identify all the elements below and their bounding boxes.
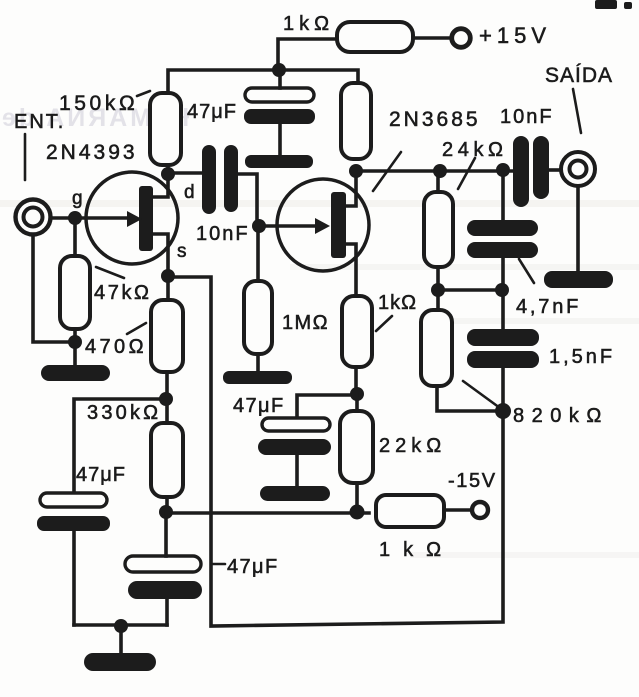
ground (under 47uF top center) (245, 155, 313, 168)
svg-text:d: d (184, 182, 195, 203)
wire output jack to ground (576, 186, 580, 273)
capacitor C 10nF output left plate (513, 136, 529, 207)
callout line 1k Q2 (376, 316, 392, 331)
capacitor C 1.5nF bottom plate (467, 351, 539, 368)
capacitor C 47uF (left) solid plate (37, 516, 110, 531)
node 47k bottom (68, 335, 82, 349)
ground (under 47k) (41, 365, 110, 381)
output jack SAIDA inner (570, 161, 587, 178)
node 1k/22k (350, 387, 364, 401)
svg-text:ENT.: ENT. (14, 111, 65, 133)
resistor R 330k (151, 423, 183, 497)
capacitor C 10nF coupling right plate (224, 145, 238, 212)
node drain Q1 (161, 167, 175, 181)
svg-text:330kΩ: 330kΩ (87, 402, 161, 424)
wire 1k-top right lead (412, 36, 453, 40)
ground (under 1M) (223, 371, 292, 384)
input jack ENT inner (24, 208, 43, 227)
wire Q1 source stub (153, 234, 168, 300)
wire +15V rail (168, 70, 358, 94)
terminal -15V (472, 502, 488, 518)
svg-text:2N4393: 2N4393 (46, 141, 138, 164)
capacitor C 47uF (left) hollow plate (40, 493, 107, 507)
resistor R 24k (424, 192, 453, 267)
callout line 470 (127, 323, 146, 334)
wire output cap to jack (549, 168, 561, 172)
svg-text:s: s (177, 241, 187, 262)
capacitor C 47uF (bottom center) solid plate (128, 581, 202, 599)
svg-text:4,7nF: 4,7nF (516, 296, 581, 318)
callout line 2N3685 (373, 152, 401, 191)
wire coupling cap to Q2 gate (238, 174, 317, 226)
transistor Q2 2N3685 body (277, 179, 369, 271)
callout line 47k (96, 267, 124, 278)
resistor R 470 (151, 300, 183, 372)
wire 22k leads (355, 394, 359, 513)
node 24k top (433, 164, 447, 178)
svg-text:22kΩ: 22kΩ (379, 435, 446, 457)
node ground bottom (114, 619, 128, 633)
svg-text:1kΩ: 1kΩ (283, 13, 334, 35)
node 820k/feedback (495, 403, 511, 419)
svg-text:47μF: 47μF (76, 464, 126, 486)
wire 1M bottom lead (256, 354, 260, 371)
wire cap bottom lead (278, 124, 282, 155)
resistor R 1k (Q2 source) (342, 296, 372, 367)
svg-text:1kΩ: 1kΩ (379, 539, 454, 561)
svg-text:10nF: 10nF (196, 223, 250, 245)
svg-text:-15V: -15V (448, 470, 497, 492)
wire 1k-top left lead (278, 39, 338, 70)
svg-text:470Ω: 470Ω (85, 336, 147, 358)
node gate Q1 (68, 211, 82, 225)
node output/4.7nF (496, 163, 510, 177)
ground (output jack) (544, 271, 613, 288)
capacitor C 47uF (top center) solid plate (244, 109, 315, 124)
wire 1.5nF bottom lead (501, 368, 505, 411)
callout line 24k (458, 158, 475, 189)
capacitor C 1.5nF top plate (467, 329, 539, 346)
input jack ENT outer (16, 200, 51, 235)
svg-text:820kΩ: 820kΩ (513, 405, 609, 427)
svg-text:47μF: 47μF (233, 395, 285, 417)
wire 24k bottom lead through node to 820k (436, 267, 440, 310)
terminal +15V (452, 29, 471, 48)
wire bottom left to center cap (74, 623, 167, 627)
wire center cap bottom lead (165, 599, 169, 625)
capacitor C 4.7nF top plate (467, 220, 538, 236)
capacitor C 47uF (top center) hollow plate (245, 88, 314, 102)
wire bypass cap bottom lead (295, 455, 299, 487)
svg-text:10nF: 10nF (500, 106, 554, 128)
scan artifact bands (0, 200, 639, 207)
scan artifact bar top right (595, 0, 617, 9)
wire bias rail bottom (166, 511, 369, 515)
resistor R 22k (340, 411, 373, 483)
wire drain rail to output (356, 169, 513, 173)
wire 470 bottom lead (165, 372, 169, 423)
wire Q1 drain stub (153, 165, 168, 197)
label tick 47uF bottom (212, 563, 225, 566)
transistor Q1 channel bar (139, 186, 153, 251)
wire drain to coupling cap (174, 171, 202, 175)
svg-text:1MΩ: 1MΩ (282, 312, 329, 334)
wire center cap top lead (164, 513, 168, 556)
wire Q1 gate (51, 216, 128, 220)
wire branch left to 47uF (74, 399, 166, 494)
node Q2 gate (252, 219, 266, 233)
output jack SAIDA outer (561, 152, 595, 186)
wire 1k to -15V terminal (444, 508, 472, 512)
wire 330k bottom lead (165, 497, 169, 513)
wire jack ENT lead down (33, 235, 75, 342)
wire 47k top lead (73, 218, 77, 256)
node 22k bottom (350, 505, 365, 520)
svg-text:47μF: 47μF (227, 556, 279, 578)
svg-text:47μF: 47μF (187, 101, 237, 123)
svg-text:150kΩ: 150kΩ (59, 92, 138, 115)
wire Q2 source stub (346, 244, 356, 296)
capacitor C 47uF (bypass) hollow plate (262, 418, 330, 431)
node 24k/820k (431, 283, 445, 297)
wire cap top lead (278, 70, 282, 88)
node 4.7/1.5nF (495, 283, 509, 297)
resistor R 1k (to -15V) (376, 495, 444, 527)
callout line SAÍDA (573, 89, 581, 133)
node Q1 source (161, 269, 175, 283)
node junction at rail x278 (272, 63, 286, 77)
capacitor C 4.7nF bottom plate (467, 242, 538, 258)
capacitor C 47uF (bypass) solid plate (258, 439, 331, 455)
resistor R 820k (421, 310, 452, 386)
node 330k bottom (159, 505, 173, 519)
svg-text:+15V: +15V (479, 23, 551, 48)
wire 47k bottom lead to ground (73, 329, 77, 365)
svg-text:47kΩ: 47kΩ (94, 282, 152, 304)
svg-text:g: g (72, 188, 83, 209)
ground (bottom center) (84, 653, 156, 671)
node Q2 drain (349, 164, 363, 178)
transistor Q1 2N4393 body (86, 172, 178, 264)
callout line 4.7nF (519, 259, 534, 283)
wire 1k bottom lead (354, 367, 358, 394)
wire 820k bottom lead (437, 386, 503, 411)
svg-text:SAÍDA: SAÍDA (545, 64, 613, 87)
svg-text:1kΩ: 1kΩ (378, 292, 417, 314)
capacitor C 10nF coupling left plate (202, 145, 216, 214)
resistor R 47k (60, 256, 90, 329)
wire 4.7nF leads (501, 171, 505, 329)
callout tick 150k (137, 91, 150, 96)
wire 1M top lead (256, 226, 260, 281)
resistor R 1M (244, 281, 272, 354)
wire Q2 drain stub (346, 171, 356, 206)
transistor Q2 gate arrow (315, 218, 330, 234)
resistor R 1k (top, to +15V) (337, 22, 413, 52)
node 470/330k (159, 392, 173, 406)
capacitor C 47uF (bottom center) hollow plate (125, 556, 201, 572)
capacitor C 10nF output right plate (533, 136, 549, 199)
wire node to 4.7nF node (438, 288, 503, 292)
wire left cap bottom lead (72, 531, 76, 625)
wire branch to bypass cap (297, 395, 357, 417)
wire 24k top lead (436, 171, 440, 192)
wire ground stub bottom (119, 626, 123, 654)
svg-text:2N3685: 2N3685 (389, 108, 481, 131)
wire feedback: source right, down, across bottom, up to 820k node (168, 277, 503, 626)
transistor Q2 channel bar (331, 192, 346, 258)
resistor R drain Q2 (341, 83, 371, 159)
svg-text:1,5nF: 1,5nF (549, 346, 615, 368)
transistor Q1 gate arrow (127, 211, 142, 227)
callout line 820k (463, 381, 500, 408)
ground (under bypass cap) (260, 486, 330, 501)
resistor R 150k (150, 93, 181, 165)
callout line ENT (24, 134, 27, 180)
